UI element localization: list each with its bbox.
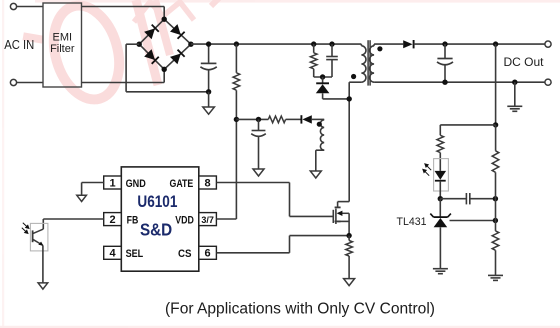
svg-text:(For Applications with Only CV: (For Applications with Only CV Control): [165, 301, 435, 318]
node bridge bottom: [162, 67, 167, 72]
wire: [290, 235, 350, 237]
wire: [439, 181, 441, 199]
node comp cap right: [493, 196, 498, 201]
svg-text:6: 6: [205, 248, 211, 260]
LED emission arrows: [423, 164, 431, 176]
wire: [322, 77, 324, 83]
MOSFET Q1 channel bar: [335, 209, 337, 224]
bridge diode D1: [145, 25, 159, 39]
transformer T1 core: [367, 40, 369, 85]
svg-text:S&D: S&D: [140, 219, 172, 239]
EMI filter block: [43, 3, 82, 87]
svg-text:VDD: VDD: [175, 214, 194, 226]
pin 1 box: [104, 176, 122, 189]
pin 8 box: [199, 176, 217, 189]
svg-text:FB: FB: [127, 214, 139, 226]
node snubber R top: [311, 41, 316, 46]
bridge diode D3: [145, 50, 159, 64]
snubber resistor R2: [310, 53, 317, 69]
wire: [348, 236, 350, 241]
wire: [208, 44, 210, 63]
wire: [348, 256, 350, 279]
wire: [439, 199, 441, 217]
TL431 U3: [434, 216, 448, 218]
wire: [439, 153, 441, 171]
wire: [514, 82, 516, 106]
wire: [216, 182, 289, 184]
ground opto emitter: [38, 283, 48, 289]
AC input terminal top: [10, 3, 16, 9]
wire: [373, 44, 375, 46]
ground sense resistor: [344, 279, 355, 286]
wire: [313, 44, 315, 53]
TL431 ref wire: [450, 220, 496, 222]
wire: [348, 213, 350, 235]
wire: [236, 118, 268, 120]
clamp diode D5: [316, 82, 329, 84]
wire: [289, 236, 291, 253]
bridge diode D2: [170, 25, 184, 39]
upper divider resistor R6: [492, 151, 499, 173]
wire: [314, 76, 332, 78]
ground aux winding: [310, 171, 321, 178]
sense resistor R4: [346, 241, 353, 257]
ground VDD cap: [253, 169, 264, 176]
wire: [331, 60, 333, 77]
svg-text:EMI: EMI: [53, 32, 73, 44]
IC U1 body: [121, 167, 199, 271]
pin 2 box: [104, 213, 122, 226]
MOSFET Q1 body arrow: [338, 212, 349, 214]
wire: [444, 65, 446, 82]
wire: [163, 69, 165, 82]
wire: [216, 252, 289, 254]
transformer T1 aux winding: [320, 120, 324, 150]
svg-text:U6101: U6101: [137, 193, 177, 211]
wire: [349, 81, 361, 83]
svg-text:AC IN: AC IN: [4, 37, 34, 52]
svg-text:SEL: SEL: [126, 248, 144, 260]
optocoupler U2 LED: [435, 171, 447, 180]
optocoupler U2 phototransistor box: [30, 223, 48, 251]
wire: [323, 98, 350, 100]
output diode D6: [403, 40, 412, 48]
wire bridge arm BR: [164, 44, 191, 69]
svg-text:DC Out: DC Out: [504, 55, 545, 69]
wire: [316, 149, 324, 151]
wire: [315, 150, 317, 171]
svg-text:3/7: 3/7: [201, 215, 214, 225]
ground primary bulk: [203, 107, 215, 114]
pin 4 box: [104, 246, 122, 259]
node FB tap: [493, 122, 498, 127]
snubber capacitor C2: [326, 56, 338, 58]
wire bridge arm BL: [139, 44, 164, 69]
wire: [439, 125, 441, 135]
wire: [163, 7, 165, 20]
svg-text:GND: GND: [126, 178, 146, 190]
node divider mid: [493, 218, 498, 223]
wire: [208, 92, 210, 107]
wire: [17, 82, 43, 84]
transformer T1 primary winding: [361, 46, 366, 82]
wire: [313, 69, 315, 77]
wire FB vertical: [495, 44, 497, 125]
node bridge right: [188, 42, 193, 47]
wire HV rail: [191, 43, 362, 45]
VDD resistor R3: [268, 116, 285, 123]
wire primary drain drop: [348, 82, 350, 201]
VDD diode D7: [300, 115, 302, 123]
node C1 top: [206, 41, 211, 46]
transformer T1 secondary winding: [370, 46, 375, 82]
svg-text:8: 8: [205, 177, 211, 189]
node secondary ground tap: [512, 80, 517, 85]
transformer primary polarity dot: [351, 74, 356, 79]
optocoupler U2 phototransistor: [32, 230, 34, 242]
wire: [289, 183, 291, 217]
wire: [125, 44, 127, 92]
AC input terminal bottom: [10, 79, 16, 85]
MOSFET Q1 source tick: [335, 220, 341, 222]
svg-text:GATE: GATE: [170, 178, 194, 190]
pin 6 box: [199, 246, 217, 259]
svg-text:4: 4: [109, 248, 116, 260]
wire: [338, 220, 350, 222]
wire: [360, 44, 362, 46]
node DC+ junction: [493, 41, 498, 46]
aux winding polarity dot: [317, 122, 322, 127]
DC out terminal bottom: [545, 79, 551, 85]
MOSFET Q1 drain tick: [335, 206, 341, 208]
wire: [286, 118, 301, 120]
ground secondary output: [507, 105, 522, 107]
wire: [82, 182, 104, 184]
transformer secondary polarity dot: [377, 46, 382, 51]
optocoupler U2 LED box: [434, 159, 449, 191]
wire: [439, 227, 441, 268]
wire: [43, 218, 103, 220]
wire: [82, 82, 165, 84]
wire: [216, 218, 236, 220]
wire bridge arm TR: [164, 19, 191, 44]
wire: [126, 91, 209, 93]
wire: [470, 198, 496, 200]
node VDD junction: [234, 117, 239, 122]
wire: [495, 250, 497, 275]
wire: [440, 198, 466, 200]
wire: [495, 172, 497, 231]
MOSFET Q1 gate bar: [332, 210, 334, 223]
wire: [312, 118, 324, 120]
bridge diode D4: [170, 50, 184, 64]
wire DC+ rail: [414, 43, 545, 45]
startup resistor R1: [233, 73, 240, 90]
wire: [322, 93, 324, 99]
DC out terminal top: [545, 41, 551, 47]
wire: [337, 202, 339, 208]
node source junction: [346, 233, 351, 238]
output capacitor C3: [437, 58, 452, 60]
node clamp junction: [347, 96, 352, 101]
compensation capacitor C5: [465, 193, 467, 204]
bulk capacitor C1: [201, 62, 217, 64]
LED series resistor R5: [437, 135, 444, 152]
lower divider resistor R7: [492, 231, 499, 250]
node snubber C top: [329, 41, 334, 46]
wire: [338, 201, 350, 203]
ground TL431 anode: [433, 268, 448, 270]
wire: [440, 124, 495, 126]
wire: [126, 43, 139, 45]
wire: [258, 137, 260, 169]
wire bridge arm TL: [139, 19, 164, 44]
svg-text:2: 2: [109, 214, 115, 226]
wire: [42, 245, 44, 283]
wire: [17, 6, 43, 8]
pin 3/7 box: [199, 213, 217, 226]
node startup R top: [234, 41, 239, 46]
wire: [42, 219, 44, 229]
ground pin1 GND: [77, 195, 87, 201]
node C1 bottom: [206, 89, 211, 94]
ground divider bottom: [488, 274, 503, 276]
wire: [208, 70, 210, 92]
node VDD cap junction: [256, 117, 261, 122]
wire: [235, 44, 237, 73]
wire secondary bottom rail: [374, 81, 545, 83]
svg-text:Filter: Filter: [50, 43, 75, 55]
wire: [290, 215, 334, 217]
optocoupler light arrows: [22, 223, 29, 234]
wire: [82, 6, 165, 8]
wire: [495, 125, 497, 151]
svg-text:CS: CS: [178, 248, 192, 260]
node bridge top: [162, 17, 167, 22]
svg-text:TL431: TL431: [397, 216, 427, 228]
wire: [81, 183, 83, 196]
node output cap bottom: [442, 80, 447, 85]
node bridge left: [137, 42, 142, 47]
svg-text:1: 1: [109, 177, 115, 189]
wire: [444, 44, 446, 58]
wire: [331, 44, 333, 56]
VDD capacitor C4: [252, 130, 266, 132]
wire: [258, 119, 260, 130]
node snubber bottom: [320, 74, 325, 79]
wire: [235, 90, 237, 219]
wire: [374, 43, 403, 45]
node output cap top: [442, 41, 447, 46]
node opto LED cathode: [438, 196, 443, 201]
